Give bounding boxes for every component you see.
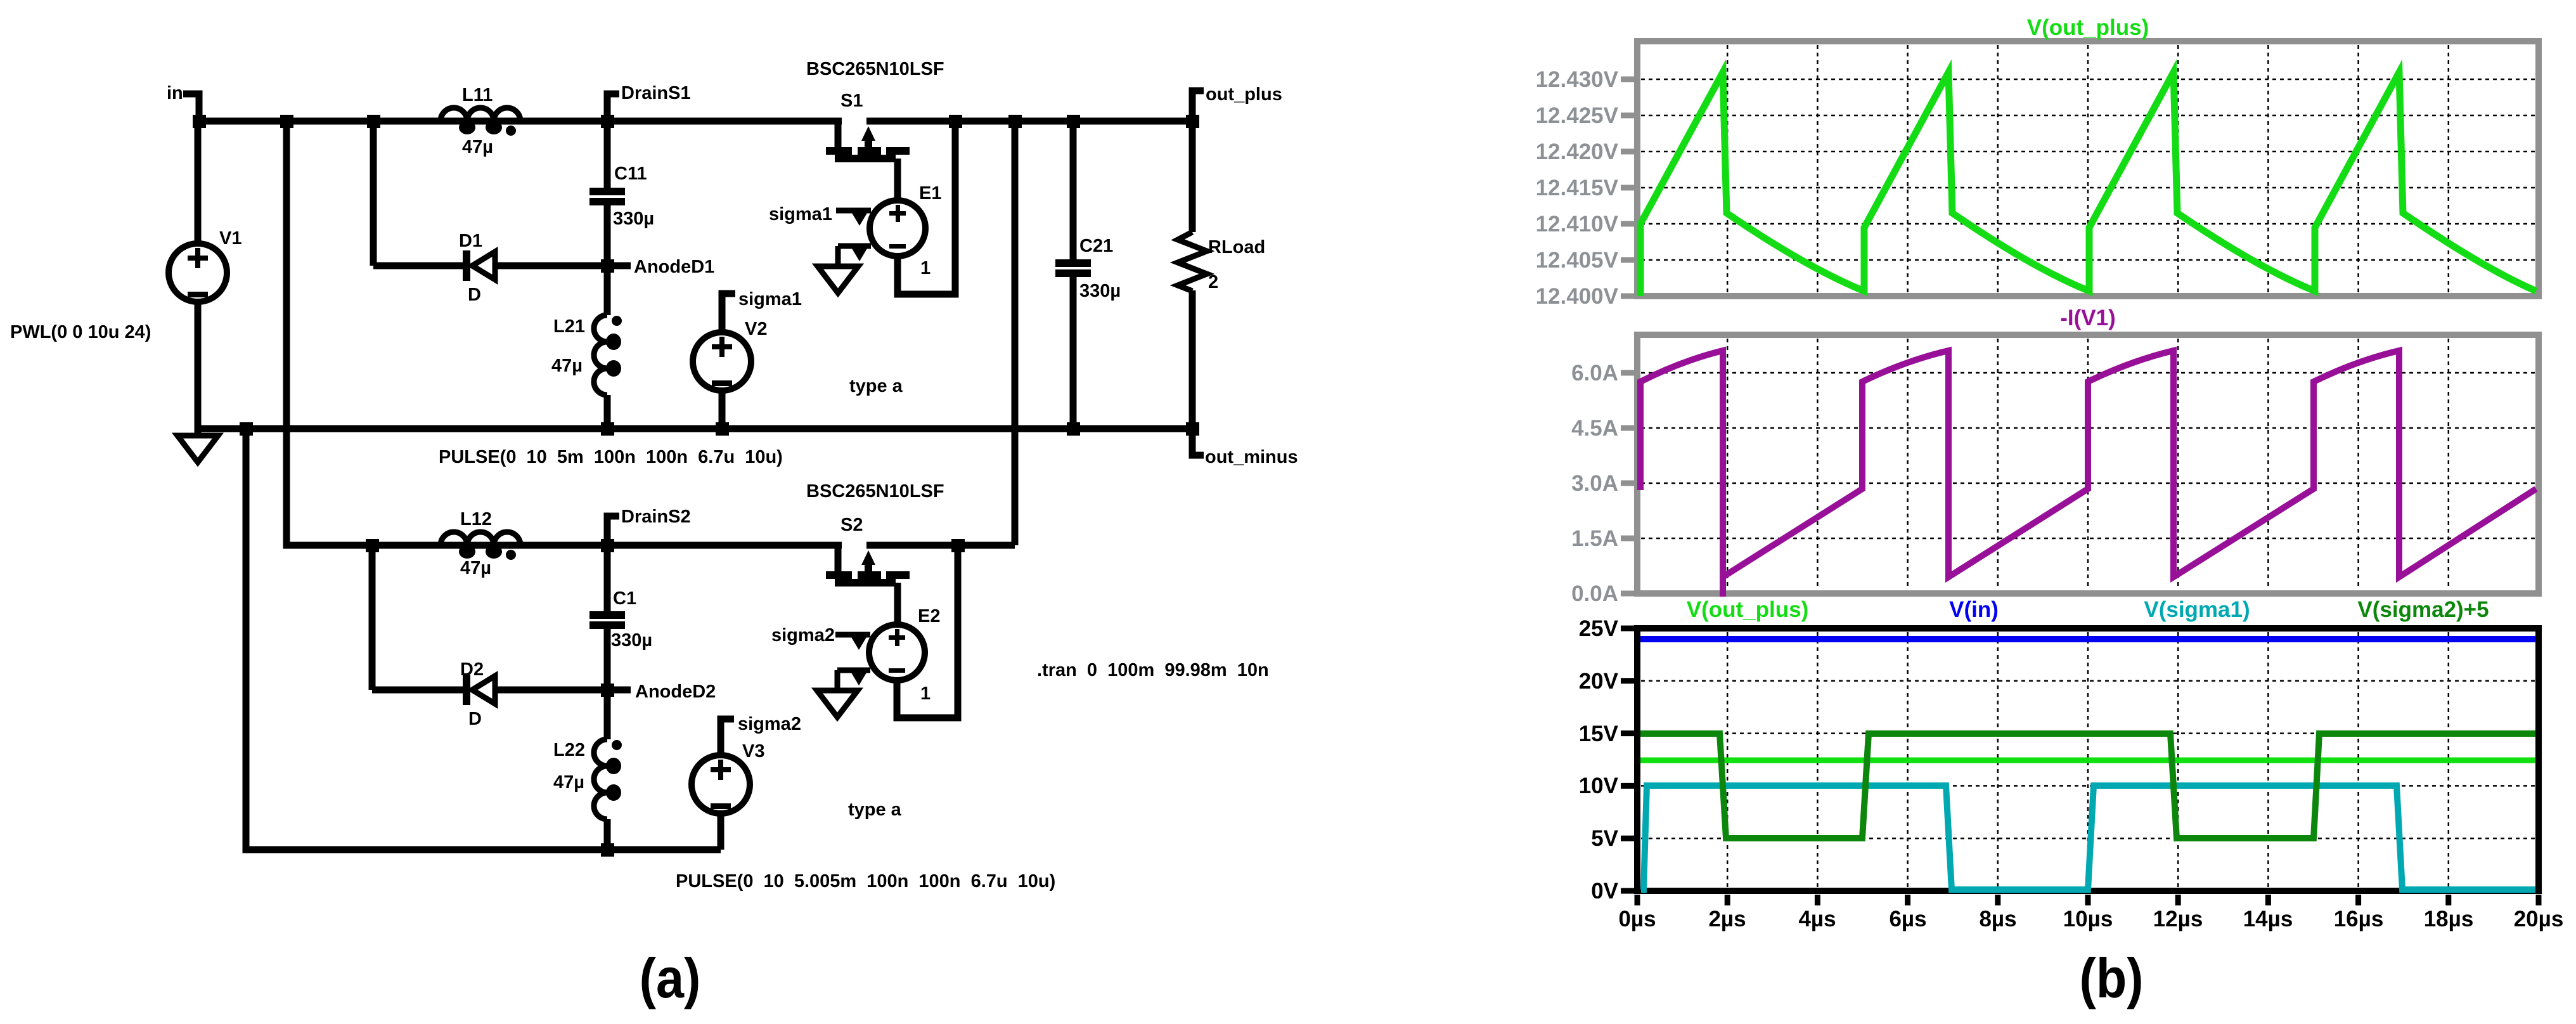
svg-text:PULSE(0 10 5.005m 100n 100n 6.: PULSE(0 10 5.005m 100n 100n 6.7u 10u) bbox=[676, 871, 1055, 891]
svg-text:sigma1: sigma1 bbox=[738, 289, 802, 309]
svg-text:16µs: 16µs bbox=[2334, 907, 2384, 931]
svg-text:(a): (a) bbox=[640, 947, 701, 1009]
svg-text:1: 1 bbox=[920, 684, 931, 704]
svg-text:BSC265N10LSF: BSC265N10LSF bbox=[806, 59, 944, 79]
svg-text:C1: C1 bbox=[613, 588, 636, 609]
svg-text:0V: 0V bbox=[1591, 879, 1618, 904]
svg-text:D: D bbox=[468, 709, 482, 729]
svg-text:V(in): V(in) bbox=[1949, 597, 1999, 622]
svg-text:V(out_plus): V(out_plus) bbox=[1687, 597, 1808, 622]
svg-text:0µs: 0µs bbox=[1618, 907, 1656, 931]
svg-text:V(sigma1): V(sigma1) bbox=[2144, 597, 2250, 622]
svg-text:L22: L22 bbox=[553, 740, 585, 760]
svg-text:-I(V1): -I(V1) bbox=[2060, 306, 2116, 330]
svg-text:V2: V2 bbox=[745, 319, 767, 339]
svg-text:E2: E2 bbox=[918, 606, 940, 626]
svg-text:12.420V: 12.420V bbox=[1536, 139, 1619, 164]
svg-text:BSC265N10LSF: BSC265N10LSF bbox=[806, 481, 944, 502]
svg-text:330µ: 330µ bbox=[611, 630, 652, 651]
svg-text:L21: L21 bbox=[553, 316, 585, 337]
svg-text:47µ: 47µ bbox=[553, 772, 584, 793]
svg-text:out_plus: out_plus bbox=[1206, 84, 1282, 105]
svg-text:D1: D1 bbox=[459, 231, 482, 251]
svg-text:2: 2 bbox=[1208, 272, 1218, 292]
svg-text:12.405V: 12.405V bbox=[1536, 248, 1619, 273]
svg-text:sigma2: sigma2 bbox=[771, 625, 835, 645]
svg-text:15V: 15V bbox=[1579, 722, 1619, 746]
svg-text:AnodeD1: AnodeD1 bbox=[634, 257, 714, 277]
svg-text:14µs: 14µs bbox=[2243, 907, 2293, 931]
svg-text:DrainS2: DrainS2 bbox=[621, 507, 691, 527]
svg-text:S2: S2 bbox=[840, 515, 863, 535]
svg-text:8µs: 8µs bbox=[1979, 907, 2016, 931]
svg-text:out_minus: out_minus bbox=[1205, 447, 1298, 467]
svg-text:sigma1: sigma1 bbox=[769, 204, 832, 224]
svg-text:DrainS1: DrainS1 bbox=[621, 83, 691, 103]
svg-text:E1: E1 bbox=[919, 183, 941, 204]
svg-text:12.425V: 12.425V bbox=[1536, 103, 1619, 128]
svg-text:L12: L12 bbox=[460, 509, 492, 529]
svg-text:12.430V: 12.430V bbox=[1536, 67, 1619, 92]
svg-text:AnodeD2: AnodeD2 bbox=[635, 682, 716, 702]
svg-text:12µs: 12µs bbox=[2153, 907, 2203, 931]
svg-text:6.0A: 6.0A bbox=[1571, 361, 1618, 386]
svg-text:L11: L11 bbox=[462, 85, 493, 105]
svg-text:2µs: 2µs bbox=[1708, 907, 1746, 931]
svg-text:type a: type a bbox=[848, 800, 902, 820]
svg-text:V1: V1 bbox=[219, 228, 241, 249]
svg-text:D: D bbox=[468, 285, 481, 305]
svg-text:in: in bbox=[167, 83, 183, 103]
svg-text:D2: D2 bbox=[460, 659, 484, 680]
svg-text:20V: 20V bbox=[1579, 669, 1619, 694]
svg-text:C21: C21 bbox=[1079, 236, 1113, 256]
svg-text:sigma2: sigma2 bbox=[738, 714, 801, 734]
svg-text:4µs: 4µs bbox=[1798, 907, 1836, 931]
svg-text:1: 1 bbox=[920, 258, 931, 278]
svg-text:5V: 5V bbox=[1591, 826, 1618, 851]
svg-text:12.400V: 12.400V bbox=[1536, 284, 1619, 309]
svg-text:1.5A: 1.5A bbox=[1571, 526, 1618, 551]
svg-text:V(out_plus): V(out_plus) bbox=[2027, 15, 2149, 40]
svg-text:RLoad: RLoad bbox=[1208, 237, 1265, 257]
svg-text:(b): (b) bbox=[2079, 947, 2143, 1009]
svg-text:12.410V: 12.410V bbox=[1536, 212, 1619, 237]
svg-text:0.0A: 0.0A bbox=[1571, 581, 1618, 606]
svg-text:3.0A: 3.0A bbox=[1571, 471, 1618, 496]
svg-text:C11: C11 bbox=[614, 164, 647, 184]
svg-text:330µ: 330µ bbox=[1079, 281, 1121, 301]
svg-text:330µ: 330µ bbox=[613, 209, 654, 229]
svg-text:V(sigma2)+5: V(sigma2)+5 bbox=[2357, 597, 2489, 622]
svg-text:type a: type a bbox=[849, 376, 903, 396]
svg-text:25V: 25V bbox=[1579, 616, 1619, 641]
svg-text:20µs: 20µs bbox=[2514, 907, 2564, 931]
svg-text:PULSE(0 10 5m 100n 100n 6.7u 1: PULSE(0 10 5m 100n 100n 6.7u 10u) bbox=[439, 447, 783, 467]
svg-text:18µs: 18µs bbox=[2424, 907, 2474, 931]
svg-text:4.5A: 4.5A bbox=[1571, 416, 1618, 441]
svg-text:S1: S1 bbox=[840, 91, 863, 111]
svg-text:12.415V: 12.415V bbox=[1536, 176, 1619, 200]
svg-text:10V: 10V bbox=[1579, 774, 1619, 798]
svg-text:PWL(0 0 10u 24): PWL(0 0 10u 24) bbox=[10, 322, 151, 342]
svg-text:47µ: 47µ bbox=[462, 137, 493, 157]
svg-text:V3: V3 bbox=[742, 741, 764, 762]
svg-text:10µs: 10µs bbox=[2063, 907, 2113, 931]
svg-text:6µs: 6µs bbox=[1889, 907, 1926, 931]
svg-text:.tran 0 100m 99.98m 10n: .tran 0 100m 99.98m 10n bbox=[1037, 660, 1269, 680]
svg-text:47µ: 47µ bbox=[460, 558, 491, 578]
svg-text:47µ: 47µ bbox=[551, 356, 583, 376]
